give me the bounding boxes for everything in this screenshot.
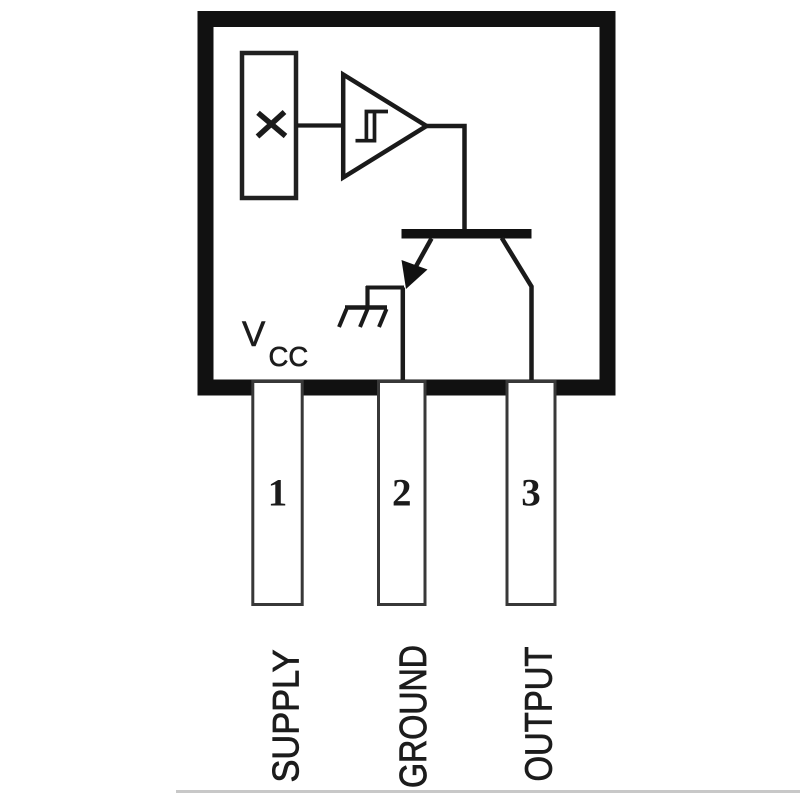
ground symbol <box>339 286 387 327</box>
hysteresis symbol <box>356 112 389 142</box>
Q1 emitter lead <box>410 239 432 279</box>
transistor Q1 base bar <box>402 229 532 239</box>
svg-text:GROUND: GROUND <box>393 645 435 788</box>
IC body outline U1 <box>206 19 608 388</box>
wire emitter junction to pin 2 <box>401 288 406 381</box>
pin 3 lead <box>507 382 555 605</box>
op-amp U2 schmitt trigger triangle <box>343 75 426 178</box>
Q1 emitter arrowhead <box>402 260 428 289</box>
Q1 collector lead to pin 3 <box>502 238 532 380</box>
pin 1 lead <box>253 382 302 605</box>
svg-text:V: V <box>242 315 266 354</box>
svg-text:CC: CC <box>269 341 309 372</box>
svg-text:SUPPLY: SUPPLY <box>266 650 307 783</box>
svg-text:3: 3 <box>521 472 541 515</box>
bottom divider line <box>176 790 800 793</box>
wire schmitt output to Q1 base <box>426 126 465 229</box>
wire hall element to schmitt input <box>297 123 344 127</box>
wire emitter junction to ground symbol <box>366 286 404 290</box>
pin 2 lead <box>379 382 426 605</box>
hall element X box <box>242 53 296 198</box>
svg-text:2: 2 <box>392 472 412 515</box>
hall element X mark <box>258 112 286 137</box>
svg-text:1: 1 <box>268 472 288 515</box>
svg-text:OUTPUT: OUTPUT <box>519 647 561 782</box>
